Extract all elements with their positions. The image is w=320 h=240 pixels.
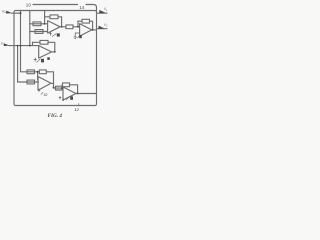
svg-text:FIG. 4: FIG. 4 bbox=[48, 113, 63, 119]
op-amp U5 bbox=[63, 87, 76, 100]
wire R6 to U3 output bbox=[48, 42, 55, 52]
wire to feedback resistor bbox=[38, 71, 40, 73]
resistor R8 feedback bbox=[39, 70, 46, 74]
resistor R6 bbox=[40, 40, 48, 44]
wire R11 to right leg bbox=[70, 85, 78, 94]
resistor R5 bbox=[82, 19, 90, 23]
resistor R3 bbox=[50, 15, 58, 19]
label 44 bbox=[79, 35, 82, 38]
node: mid op feedback to input bracket bbox=[32, 42, 34, 45]
resistor R7 bbox=[27, 70, 35, 74]
resistor R4 bbox=[66, 25, 73, 29]
resistor R11 bbox=[63, 83, 70, 87]
resistor R1 bbox=[33, 22, 41, 26]
op-amp U3 bbox=[39, 46, 52, 59]
label 10 leader line bbox=[33, 4, 78, 6]
wire feedback to output bbox=[58, 17, 62, 27]
resistor R9 bbox=[27, 80, 35, 84]
wire U3 output stub bbox=[52, 51, 55, 53]
svg-text:10: 10 bbox=[26, 2, 32, 7]
outer box 10 bbox=[14, 11, 97, 106]
svg-text:14: 14 bbox=[79, 5, 85, 10]
op-amp U1 input row B wire bbox=[30, 31, 48, 33]
op-amp U1 bbox=[48, 21, 60, 33]
resistor R10 bbox=[56, 86, 62, 90]
wire vertical bus x=29.8 bbox=[29, 11, 31, 46]
op-amp U3 feedback wire bbox=[33, 41, 41, 43]
wire U5 output to edge bbox=[76, 93, 97, 95]
lead line for 12 bbox=[78, 103, 80, 106]
node drop to minus input bbox=[37, 72, 39, 80]
op-amp U1 feedback wire bbox=[45, 16, 50, 18]
arrowhead input 1 bbox=[6, 11, 12, 14]
op-amp U1 feedback leg bbox=[44, 11, 46, 24]
label 46 bbox=[41, 59, 44, 63]
wire input 1 stub bbox=[12, 12, 21, 14]
op-amp U2 feedback wire bbox=[78, 20, 82, 22]
op-amp U2 feedback leg left bbox=[77, 21, 79, 27]
wire row1 lower-left bbox=[21, 71, 38, 73]
svg-text:5: 5 bbox=[62, 98, 64, 102]
op-amp U2 bbox=[80, 24, 92, 36]
svg-text:52: 52 bbox=[44, 93, 48, 97]
ground marks below U1 bbox=[49, 32, 51, 36]
ground below U4 bbox=[38, 89, 40, 92]
wire output 2 bbox=[97, 28, 108, 30]
op-amp U1 input resistor row A wire bbox=[30, 23, 48, 25]
ground below U5 bbox=[59, 96, 61, 99]
ground below U2 bbox=[74, 33, 80, 38]
lead ticks below U3 bbox=[34, 58, 37, 62]
junction dots bbox=[20, 12, 22, 14]
wire row2 lower-left bbox=[18, 81, 39, 83]
wire bottom op input bbox=[54, 87, 64, 89]
arrowhead input 2 bbox=[4, 43, 10, 46]
svg-text:Va: Va bbox=[2, 9, 6, 14]
wire output 1 bbox=[97, 12, 108, 14]
wire vertical bus x=17.6 bbox=[17, 46, 19, 82]
op-amp U4 bbox=[38, 77, 51, 91]
wire input 2 bbox=[9, 45, 39, 47]
wire vertical bus x=20.5 bbox=[20, 11, 22, 72]
resistor R2 bbox=[35, 30, 43, 34]
wire U4 output stub bbox=[51, 82, 54, 84]
arrowhead output 2 bbox=[99, 26, 105, 29]
wire U2 output to edge bbox=[92, 29, 97, 31]
op-amp U5 feedback left leg bbox=[61, 85, 63, 88]
wire U2 feedback to output bbox=[90, 21, 93, 30]
svg-text:12: 12 bbox=[74, 107, 79, 112]
wire U1 output bbox=[60, 26, 66, 28]
arrowhead output 1 bbox=[99, 10, 105, 13]
label 42 bbox=[57, 33, 60, 36]
wire R8 to right leg bbox=[46, 72, 53, 88]
wire R4 to U2 bbox=[73, 26, 80, 28]
